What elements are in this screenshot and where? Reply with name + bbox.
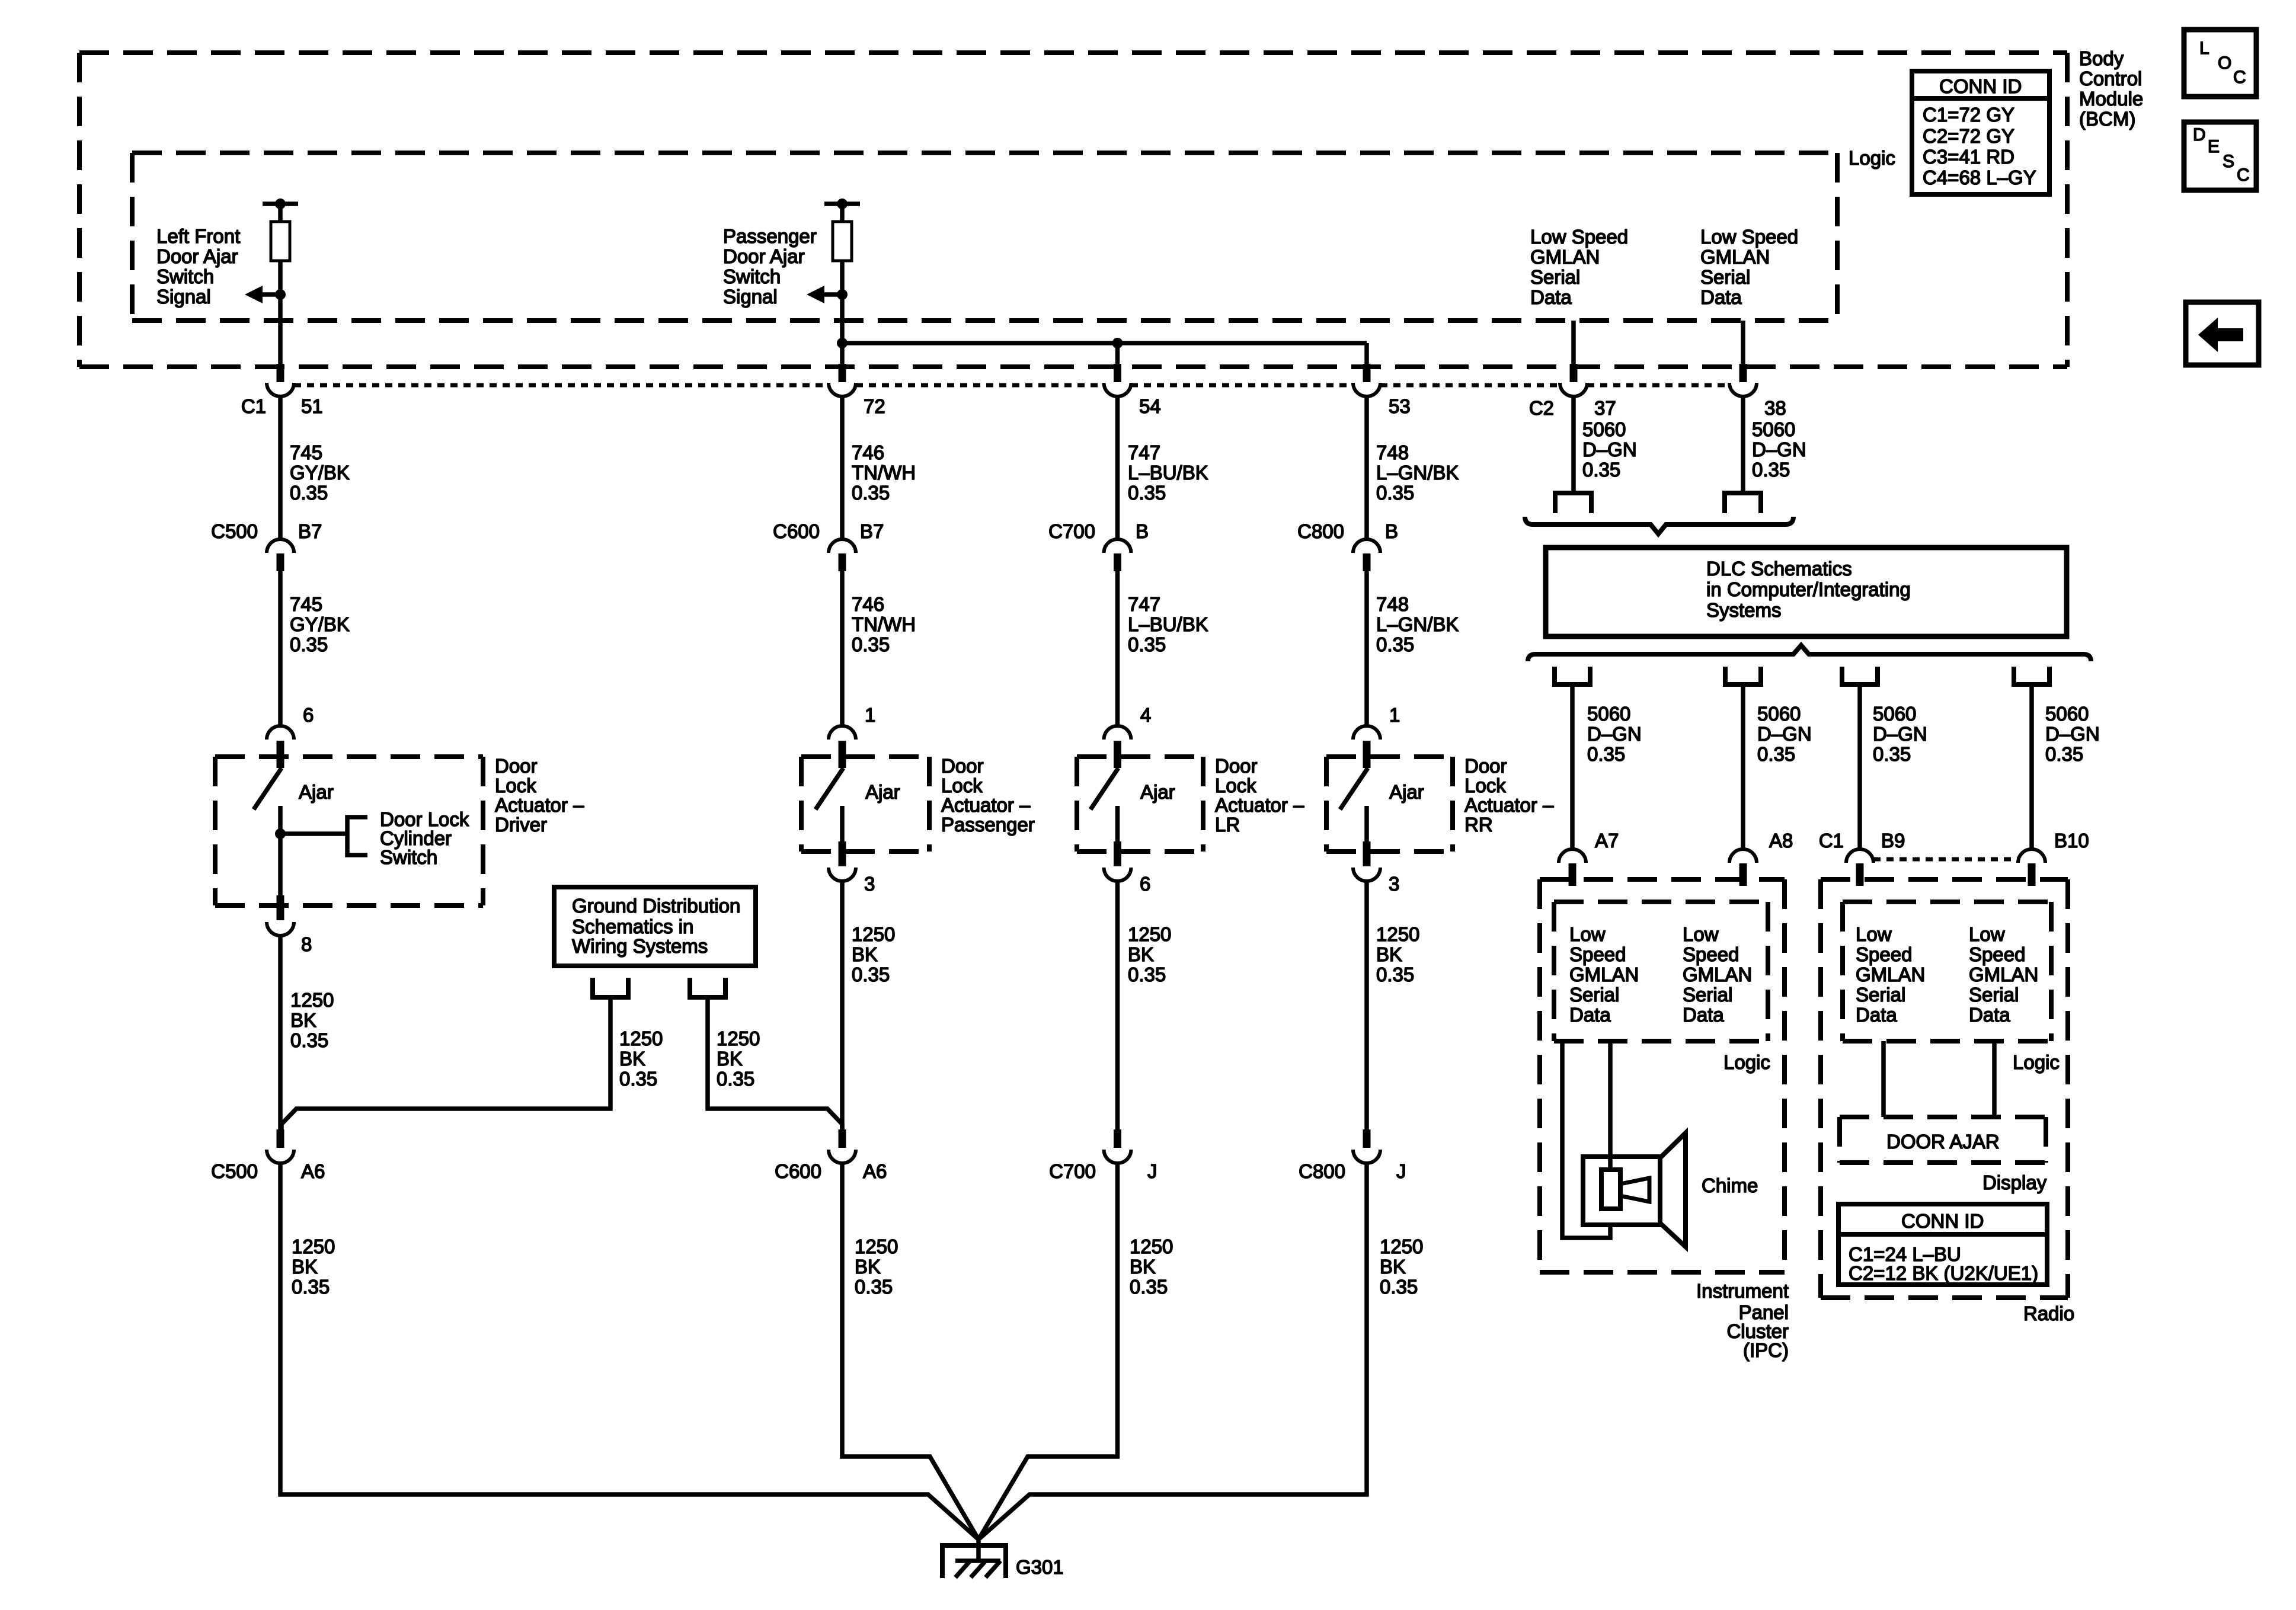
svg-text:Lock: Lock [495, 774, 536, 796]
svg-text:746: 746 [852, 593, 884, 615]
label Instrument Panel Cluster (IPC) [1696, 1280, 1789, 1361]
label wire 1250 BK 0.35 passenger [852, 923, 895, 985]
svg-text:Signal: Signal [723, 286, 778, 308]
wire 5060 D-GN to A8 [1741, 687, 1745, 849]
door lock cylinder switch contact bracket [347, 817, 367, 855]
svg-text:D–GN: D–GN [1757, 723, 1812, 745]
connector C2 pin 38 [1741, 321, 1745, 364]
svg-text:A6: A6 [301, 1160, 325, 1182]
svg-text:0.35: 0.35 [619, 1068, 657, 1090]
svg-text:745: 745 [290, 441, 322, 463]
CONN ID table (Radio) [1838, 1204, 2047, 1285]
connector pin 3 RR actuator [1363, 841, 1371, 866]
svg-text:Switch: Switch [723, 265, 781, 287]
svg-text:5060: 5060 [1587, 703, 1630, 725]
svg-text:C3=41 RD: C3=41 RD [1923, 146, 2014, 168]
svg-text:B10: B10 [2054, 830, 2089, 852]
label wire 5060 D-GN 0.35 (B9) [1873, 703, 1927, 765]
svg-text:L–BU/BK: L–BU/BK [1128, 613, 1208, 635]
DLC Schematics box [1546, 548, 2067, 636]
svg-text:J: J [1396, 1160, 1406, 1182]
svg-text:Low Speed: Low Speed [1700, 226, 1798, 248]
svg-text:(BCM): (BCM) [2079, 108, 2135, 130]
wire IPC logic to chime right [1608, 1041, 1613, 1170]
svg-text:Chime: Chime [1702, 1174, 1758, 1196]
connector pin 8 driver actuator [277, 895, 284, 920]
wire 746 TN/WH 72 to C600 [840, 397, 845, 539]
dotted connector line B9-B10 [1873, 857, 2018, 862]
connector C700 B [1104, 539, 1131, 553]
svg-text:D–GN: D–GN [1582, 438, 1637, 460]
svg-text:B: B [1385, 520, 1398, 542]
svg-text:L–GN/BK: L–GN/BK [1376, 462, 1459, 484]
svg-text:D–GN: D–GN [1873, 723, 1927, 745]
connector A7 [1559, 849, 1586, 863]
svg-text:C700: C700 [1048, 520, 1095, 542]
svg-text:TN/WH: TN/WH [852, 462, 916, 484]
junction dot cylinder switch [275, 828, 286, 839]
svg-text:Body: Body [2079, 47, 2124, 69]
BCM outer dashed box [79, 53, 2067, 367]
svg-text:37: 37 [1594, 397, 1616, 419]
svg-text:1250: 1250 [619, 1028, 663, 1049]
wire ground distribution right to C600 [708, 1000, 842, 1129]
label wire 5060 D-GN 0.35 (38) [1752, 418, 1806, 481]
svg-text:Data: Data [1530, 286, 1572, 308]
label wire 1250 BK 0.35 gnd-dist right [717, 1028, 760, 1090]
connector pin 1 RR actuator [1363, 741, 1371, 768]
svg-text:Low: Low [1683, 923, 1719, 945]
svg-text:B7: B7 [298, 520, 322, 542]
svg-text:Wiring Systems: Wiring Systems [572, 935, 708, 957]
label Low Speed GMLAN Serial Data (Radio left) [1856, 923, 1925, 1026]
svg-text:3: 3 [864, 873, 875, 895]
svg-text:0.35: 0.35 [1376, 633, 1414, 655]
svg-text:Logic: Logic [1723, 1051, 1770, 1073]
svg-text:1250: 1250 [1130, 1235, 1173, 1257]
svg-text:GY/BK: GY/BK [290, 462, 350, 484]
wire IPC logic to chime left [1562, 1041, 1610, 1238]
svg-text:B: B [1136, 520, 1149, 542]
svg-text:5060: 5060 [1582, 418, 1626, 440]
resistor passenger door ajar switch [840, 204, 845, 222]
svg-text:O: O [2218, 53, 2231, 73]
wire 5060 D-GN 37 to terminal [1571, 397, 1576, 491]
chime magnet rect [1601, 1170, 1620, 1209]
svg-text:in Computer/Integrating: in Computer/Integrating [1706, 578, 1911, 600]
Radio outer dashed box [1821, 879, 2068, 1298]
svg-text:GMLAN: GMLAN [1969, 964, 2038, 985]
wire ground stub [976, 1538, 981, 1562]
label Passenger Door Ajar Switch Signal [723, 225, 817, 308]
connector C1 pin 51 [277, 364, 284, 382]
wire 747 L-BU/BK C700 to switch 4 [1115, 571, 1120, 726]
BCM inner Logic dashed box [132, 153, 1837, 321]
svg-text:C: C [2237, 165, 2250, 185]
label wire 745 GY/BK 0.35 upper [290, 441, 350, 504]
svg-text:Ground Distribution: Ground Distribution [572, 895, 740, 917]
svg-text:Lock: Lock [1464, 774, 1506, 796]
label wire 1250 BK 0.35 bottom col3 [1130, 1235, 1173, 1298]
svg-text:CONN ID: CONN ID [1901, 1210, 1984, 1232]
wire ground distribution left to C500 [282, 1000, 610, 1129]
svg-text:0.35: 0.35 [1128, 482, 1166, 504]
RR actuator dome arc [1353, 726, 1380, 740]
label wire 746 TN/WH 0.35 lower [852, 593, 916, 655]
svg-text:Door: Door [1215, 755, 1258, 777]
svg-text:DOOR AJAR: DOOR AJAR [1886, 1131, 2000, 1153]
svg-text:G301: G301 [1016, 1556, 1064, 1578]
svg-text:1250: 1250 [855, 1235, 898, 1257]
svg-text:0.35: 0.35 [2045, 743, 2083, 765]
label Low Speed GMLAN Serial Data (BCM left) [1530, 226, 1628, 308]
svg-text:C1=72 GY: C1=72 GY [1923, 104, 2014, 126]
svg-text:Serial: Serial [1683, 984, 1732, 1006]
svg-text:Serial: Serial [1700, 266, 1750, 288]
connector C800 J [1363, 1129, 1371, 1148]
label wire 5060 D-GN 0.35 (A8) [1757, 703, 1812, 765]
svg-text:748: 748 [1376, 593, 1409, 615]
wire C600 A6 to ground run [842, 1164, 978, 1539]
svg-text:GMLAN: GMLAN [1569, 964, 1639, 985]
svg-text:54: 54 [1139, 395, 1161, 417]
label wire 746 TN/WH 0.35 upper [852, 441, 916, 504]
svg-text:B7: B7 [860, 520, 884, 542]
svg-text:Door: Door [941, 755, 984, 777]
svg-text:0.35: 0.35 [852, 964, 890, 985]
svg-text:Driver: Driver [495, 814, 547, 836]
label wire 1250 BK 0.35 bottom col1 [292, 1235, 335, 1298]
IPC outer dashed box [1540, 879, 1785, 1272]
svg-text:Data: Data [1683, 1004, 1724, 1026]
svg-text:C600: C600 [773, 520, 820, 542]
label Door Lock Actuator - Passenger [941, 755, 1035, 836]
chime big horn [1660, 1133, 1686, 1247]
svg-text:Control: Control [2079, 68, 2142, 89]
DESC box [2184, 122, 2256, 190]
label wire 745 GY/BK 0.35 lower [290, 593, 350, 655]
svg-text:BK: BK [1128, 943, 1154, 965]
svg-text:Speed: Speed [1969, 943, 2025, 965]
svg-text:0.35: 0.35 [290, 633, 328, 655]
svg-text:6: 6 [303, 704, 314, 726]
svg-text:53: 53 [1389, 395, 1411, 417]
svg-text:8: 8 [301, 933, 312, 955]
svg-text:Data: Data [1700, 286, 1742, 308]
wire bus passenger-LR-RR [842, 341, 1367, 345]
svg-text:1250: 1250 [290, 989, 334, 1011]
label Ground Distribution Schematics in Wiring Systems [572, 895, 740, 957]
connector A8 [1729, 849, 1757, 863]
svg-text:B9: B9 [1881, 830, 1905, 852]
svg-text:1: 1 [1389, 704, 1400, 726]
svg-text:Switch: Switch [380, 846, 437, 868]
svg-text:0.35: 0.35 [290, 482, 328, 504]
svg-text:D–GN: D–GN [1587, 723, 1642, 745]
svg-text:Display: Display [1982, 1172, 2047, 1193]
svg-text:BK: BK [855, 1256, 881, 1278]
svg-text:747: 747 [1128, 593, 1160, 615]
label Low Speed GMLAN Serial Data (IPC right) [1683, 923, 1752, 1026]
terminal ground distribution right [690, 978, 725, 997]
terminal DLC A8 [1725, 667, 1761, 684]
svg-text:72: 72 [864, 395, 885, 417]
svg-text:1250: 1250 [1128, 923, 1171, 945]
svg-text:Passenger: Passenger [723, 225, 817, 247]
chime small horn [1620, 1178, 1649, 1202]
svg-text:BK: BK [619, 1048, 645, 1070]
brace over DLC wires [1528, 645, 2091, 661]
terminal DLC A7 [1555, 667, 1590, 684]
svg-text:Speed: Speed [1569, 943, 1626, 965]
svg-text:Door: Door [1464, 755, 1507, 777]
connector C500 B7 [267, 539, 294, 553]
connector C1 pin 54 [1114, 364, 1121, 382]
svg-text:C4=68 L–GY: C4=68 L–GY [1923, 167, 2036, 188]
wire passenger resistor to BCM pin [840, 261, 845, 364]
svg-text:C: C [2233, 68, 2246, 87]
svg-text:Door Ajar: Door Ajar [723, 245, 805, 267]
LOC box [2184, 30, 2256, 97]
svg-text:C2=12 BK (U2K/UE1): C2=12 BK (U2K/UE1) [1849, 1262, 2038, 1284]
junction dot passenger top [837, 199, 848, 209]
svg-text:C2: C2 [1529, 397, 1554, 419]
svg-text:Door Ajar: Door Ajar [156, 245, 238, 267]
svg-text:Passenger: Passenger [941, 814, 1035, 836]
wire 745 GY/BK C1 to C500 [278, 397, 283, 539]
label Low Speed GMLAN Serial Data (BCM right) [1700, 226, 1798, 308]
svg-text:Data: Data [1569, 1004, 1611, 1026]
svg-text:BK: BK [290, 1009, 316, 1031]
svg-text:1: 1 [865, 704, 875, 726]
svg-text:5060: 5060 [1757, 703, 1801, 725]
svg-text:5060: 5060 [1873, 703, 1916, 725]
svg-text:C600: C600 [775, 1160, 821, 1182]
svg-text:1250: 1250 [852, 923, 895, 945]
label wire 5060 D-GN 0.35 (A7) [1587, 703, 1642, 765]
svg-text:Actuator –: Actuator – [1464, 794, 1554, 816]
svg-text:C800: C800 [1297, 520, 1344, 542]
connector pin 3 passenger actuator [839, 841, 846, 866]
svg-text:L–GN/BK: L–GN/BK [1376, 613, 1459, 635]
wire RR stub to pin [1364, 343, 1369, 364]
svg-text:BK: BK [1380, 1256, 1406, 1278]
connector C700 J [1114, 1129, 1121, 1148]
svg-text:BK: BK [852, 943, 878, 965]
svg-text:0.35: 0.35 [1376, 964, 1414, 985]
svg-text:6: 6 [1140, 873, 1150, 895]
wire 747 L-BU/BK 54 to C700 [1115, 397, 1120, 539]
wire 5060 D-GN to A7 [1570, 687, 1575, 849]
label Low Speed GMLAN Serial Data (Radio right) [1969, 923, 2038, 1026]
svg-text:Logic: Logic [1849, 147, 1895, 169]
svg-text:Speed: Speed [1856, 943, 1912, 965]
svg-text:0.35: 0.35 [1587, 743, 1625, 765]
svg-text:1250: 1250 [717, 1028, 760, 1049]
wire 1250 BK driver 8 to C500 A6 [278, 936, 283, 1129]
svg-text:0.35: 0.35 [1582, 459, 1620, 481]
label wire 748 L-GN/BK 0.35 lower [1376, 593, 1459, 655]
svg-text:Ajar: Ajar [299, 781, 334, 803]
svg-text:S: S [2223, 152, 2234, 171]
svg-text:Lock: Lock [941, 774, 983, 796]
label wire 1250 BK 0.35 driver [290, 989, 334, 1051]
svg-text:5060: 5060 [2045, 703, 2089, 725]
ground G301 symbol [942, 1545, 1006, 1578]
svg-text:Systems: Systems [1706, 599, 1782, 621]
wire left-front resistor to BCM pin [278, 261, 283, 364]
wire 745 GY/BK C500 to switch 6 [278, 571, 283, 726]
door lock actuator driver dashed box [215, 757, 483, 905]
svg-text:0.35: 0.35 [852, 633, 890, 655]
svg-text:GMLAN: GMLAN [1700, 246, 1770, 268]
svg-text:Ajar: Ajar [1140, 781, 1175, 803]
svg-text:A8: A8 [1769, 830, 1793, 852]
svg-text:Ajar: Ajar [865, 781, 900, 803]
node left-front top stub [263, 201, 298, 206]
label Door Lock Actuator - LR [1215, 755, 1304, 836]
LR actuator dome arc [1104, 726, 1131, 740]
arrow left-front signal [263, 292, 280, 297]
svg-text:748: 748 [1376, 441, 1409, 463]
svg-text:C500: C500 [211, 520, 258, 542]
svg-text:GY/BK: GY/BK [290, 613, 350, 635]
wire 5060 D-GN 38 to terminal [1741, 397, 1745, 491]
label wire 748 L-GN/BK 0.35 upper [1376, 441, 1459, 504]
svg-text:Ajar: Ajar [1389, 781, 1424, 803]
svg-text:Serial: Serial [1856, 984, 1905, 1006]
label wire 1250 BK 0.35 bottom col4 [1380, 1235, 1423, 1298]
svg-text:0.35: 0.35 [290, 1029, 328, 1051]
wire 746 TN/WH C600 to switch 1 [840, 571, 845, 726]
svg-text:Serial: Serial [1530, 266, 1580, 288]
junction dot bus at passenger [837, 338, 848, 348]
svg-text:Serial: Serial [1969, 984, 2019, 1006]
svg-text:747: 747 [1128, 441, 1160, 463]
svg-text:C500: C500 [211, 1160, 258, 1182]
terminal DLC B10 [2014, 667, 2049, 684]
wire 5060 D-GN to B9 [1857, 687, 1862, 849]
nav arrow box [2186, 302, 2259, 365]
connector pin 4 LR actuator [1114, 741, 1121, 768]
door lock actuator LR dashed box [1077, 757, 1203, 852]
svg-text:LR: LR [1215, 814, 1240, 836]
svg-text:0.35: 0.35 [1757, 743, 1795, 765]
connector pin 6 LR actuator [1114, 841, 1121, 866]
junction dot left-front arrow [275, 289, 286, 300]
svg-text:1250: 1250 [292, 1235, 335, 1257]
svg-text:C1: C1 [1819, 830, 1844, 852]
label Door Lock Cylinder Switch [380, 808, 469, 868]
svg-text:BK: BK [1376, 943, 1402, 965]
label wire 1250 BK 0.35 LR [1128, 923, 1171, 985]
connector C1 pin 72 [839, 364, 846, 382]
connector pin 6 driver actuator [267, 726, 294, 740]
svg-text:BK: BK [717, 1048, 743, 1070]
switch Ajar passenger [816, 768, 843, 809]
connector pin 1 passenger actuator [839, 741, 846, 768]
svg-text:E: E [2208, 137, 2220, 156]
BCM label Body Control Module (BCM) [2079, 47, 2143, 130]
label wire 5060 D-GN 0.35 (B10) [2045, 703, 2100, 765]
svg-text:0.35: 0.35 [1376, 482, 1414, 504]
door lock actuator passenger dashed box [801, 757, 929, 852]
svg-text:Serial: Serial [1569, 984, 1619, 1006]
svg-text:1250: 1250 [1380, 1235, 1423, 1257]
svg-text:Schematics in: Schematics in [572, 916, 693, 937]
svg-text:DLC Schematics: DLC Schematics [1706, 558, 1852, 580]
svg-text:C800: C800 [1299, 1160, 1345, 1182]
svg-text:Actuator –: Actuator – [941, 794, 1031, 816]
svg-text:Logic: Logic [2013, 1051, 2060, 1073]
svg-text:Module: Module [2079, 88, 2143, 110]
wire to door lock cylinder switch [280, 831, 347, 836]
brace under C2 terminals [1525, 517, 1793, 534]
svg-text:Lock: Lock [1215, 774, 1256, 796]
svg-text:0.35: 0.35 [1130, 1276, 1168, 1298]
CONN ID table (BCM) [1912, 71, 2049, 194]
arrow passenger signal [824, 292, 842, 297]
svg-text:Data: Data [1969, 1004, 2010, 1026]
connector C1 pin 53 [1363, 364, 1371, 382]
svg-text:A6: A6 [863, 1160, 887, 1182]
svg-text:C1: C1 [241, 395, 266, 417]
label Low Speed GMLAN Serial Data (IPC left) [1569, 923, 1639, 1026]
svg-text:Radio: Radio [2023, 1302, 2074, 1324]
chime speaker body [1583, 1157, 1660, 1225]
connector C500 A6 [277, 1129, 284, 1148]
svg-text:GMLAN: GMLAN [1856, 964, 1925, 985]
svg-text:3: 3 [1389, 873, 1399, 895]
label Door Lock Actuator - RR [1464, 755, 1554, 836]
svg-text:C2=72 GY: C2=72 GY [1923, 125, 2014, 147]
DOOR AJAR dashed box [1840, 1117, 2046, 1163]
label DLC Schematics in Computer/Integrating Systems [1706, 558, 1911, 621]
svg-text:51: 51 [301, 395, 323, 417]
svg-text:Door: Door [495, 755, 538, 777]
label wire 1250 BK 0.35 RR [1376, 923, 1419, 985]
svg-text:A7: A7 [1595, 830, 1619, 852]
connector C600 B7 [829, 539, 856, 553]
svg-text:745: 745 [290, 593, 322, 615]
IPC inner Logic dashed box [1554, 902, 1768, 1041]
svg-text:GMLAN: GMLAN [1530, 246, 1600, 268]
label wire 747 L-BU/BK 0.35 lower [1128, 593, 1208, 655]
svg-text:Instrument: Instrument [1696, 1280, 1789, 1302]
label wire 1250 BK 0.35 bottom col2 [855, 1235, 898, 1298]
ground distribution box [554, 887, 756, 966]
svg-text:Left Front: Left Front [156, 225, 240, 247]
connector C600 A6 [839, 1129, 846, 1148]
svg-text:Low Speed: Low Speed [1530, 226, 1628, 248]
terminal DLC B9 [1842, 667, 1878, 684]
svg-text:1250: 1250 [1376, 923, 1419, 945]
svg-text:5060: 5060 [1752, 418, 1795, 440]
label Door Lock Actuator - Driver [495, 755, 584, 836]
svg-text:GMLAN: GMLAN [1683, 964, 1752, 985]
switch Ajar driver [254, 768, 282, 809]
svg-text:746: 746 [852, 441, 884, 463]
svg-text:4: 4 [1140, 704, 1151, 726]
svg-text:L: L [2199, 39, 2209, 58]
svg-text:0.35: 0.35 [717, 1068, 754, 1090]
svg-text:Low: Low [1969, 923, 2005, 945]
svg-text:0.35: 0.35 [855, 1276, 893, 1298]
svg-text:D–GN: D–GN [2045, 723, 2100, 745]
svg-text:0.35: 0.35 [1128, 964, 1166, 985]
svg-text:J: J [1147, 1160, 1157, 1182]
Radio inner Logic dashed box [1843, 902, 2051, 1041]
